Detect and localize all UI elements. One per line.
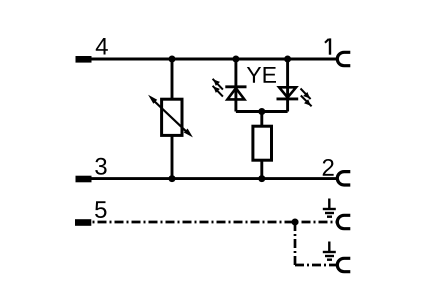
terminal 5 [75,219,91,226]
wire pin 5 dash-dot line [91,221,337,224]
terminal 3 [76,176,92,183]
wire varistor branch [171,59,174,179]
ground symbol 2 [323,242,336,260]
wire top rail (pin 4 to pin 1) [91,58,338,61]
junction dot top rail / varistor [169,56,176,63]
junction dot top rail / LED right [284,56,291,63]
wire earth branch vertical dash-dot [294,222,297,265]
connector socket earth 2 [337,258,350,271]
LED D2 right (conducting down) [277,87,299,99]
LED D1 emission arrows [213,79,223,97]
junction dot top rail / LED left [232,56,239,63]
wire LED bottom bus [236,110,288,113]
wire LED left branch [234,59,237,112]
junction dot bottom rail / resistor [258,175,265,182]
wire earth branch horizontal dash-dot [295,264,337,267]
label pin 2 [323,159,334,176]
label YE (yellow LED) [247,67,261,83]
LED D2 emission arrows [301,89,312,107]
varistor Z (surge suppressor) [148,95,193,138]
connector socket pin 2 [337,172,350,185]
wire resistor stub [260,112,263,179]
label pin 4 [96,38,108,55]
junction dot LED bus / resistor [258,108,265,115]
LED D1 left (conducting up) [225,87,246,100]
connector socket pin 1 [337,52,350,65]
wire LED right branch [286,59,289,112]
junction dot bottom rail / varistor [169,175,176,182]
wire bottom rail (pin 3 to pin 2) [91,177,338,180]
resistor R1 [253,126,272,160]
label pin 3 [95,158,106,175]
connector socket earth 1 [337,215,350,228]
terminal 4 [76,56,92,63]
label pin 1 [325,38,330,54]
ground symbol 1 [323,199,336,217]
junction dot pin5 line / earth branch [292,219,299,226]
label pin 5 [95,201,106,218]
